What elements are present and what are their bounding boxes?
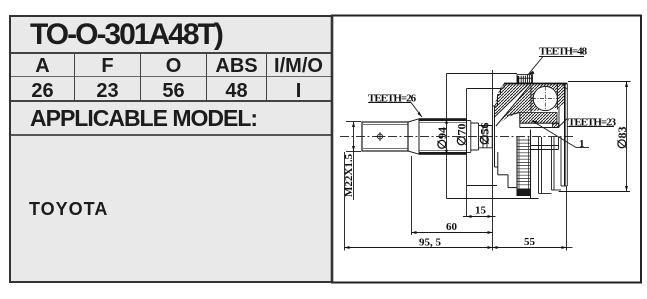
svg-text:∅56: ∅56	[478, 123, 492, 145]
svg-text:TEETH=48: TEETH=48	[539, 46, 588, 58]
svg-text:15: 15	[475, 205, 487, 217]
svg-text:55: 55	[524, 236, 536, 248]
svg-text:60: 60	[446, 221, 458, 233]
svg-text:M22X1.5: M22X1.5	[343, 153, 355, 197]
svg-text:∅83: ∅83	[615, 127, 629, 149]
svg-text:∅70: ∅70	[455, 124, 469, 146]
svg-text:95, 5: 95, 5	[419, 237, 442, 249]
svg-text:∅94: ∅94	[435, 127, 449, 149]
svg-text:TEETH=23: TEETH=23	[568, 117, 617, 129]
svg-text:1: 1	[579, 138, 585, 150]
svg-text:TEETH=26: TEETH=26	[368, 93, 417, 105]
